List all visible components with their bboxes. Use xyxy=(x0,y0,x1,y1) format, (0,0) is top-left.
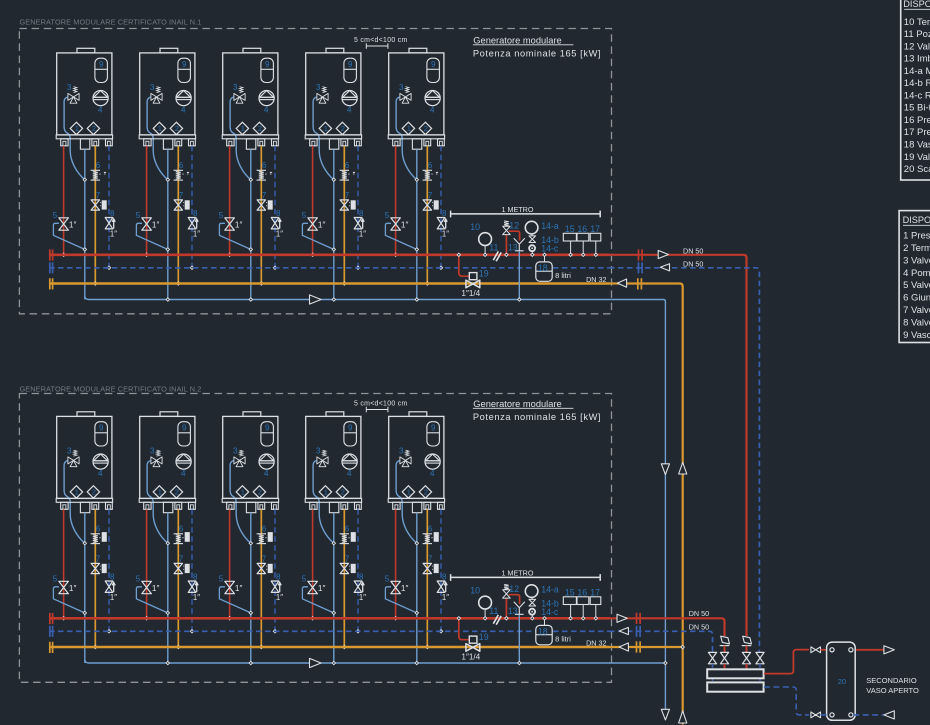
secondary return pipe xyxy=(764,687,809,715)
gen2 drain pipe xyxy=(609,662,665,664)
svg-text:DN 50: DN 50 xyxy=(689,622,709,631)
svg-text:20 Scambiatore di calore: 20 Scambiatore di calore xyxy=(904,164,930,175)
svg-text:DN 50: DN 50 xyxy=(683,259,703,268)
svg-text:14-b Rubinetto manometro: 14-b Rubinetto manometro xyxy=(904,78,930,89)
secondary return inlet xyxy=(853,714,884,716)
svg-text:15 Bi-termostato di blocco: 15 Bi-termostato di blocco xyxy=(904,103,930,114)
secondary supply pipe xyxy=(764,650,809,674)
svg-text:16 Pressostato di blocco: 16 Pressostato di blocco xyxy=(904,115,930,126)
svg-text:DISPOSITIVI DI SICUREZZA: DISPOSITIVI DI SICUREZZA xyxy=(903,0,930,9)
svg-text:8 Valvola di ritegno: 8 Valvola di ritegno xyxy=(903,317,930,328)
gen2 return flow arrow xyxy=(619,627,628,634)
isolating valve (gen2 supply) xyxy=(720,652,728,663)
gen1 gas pipe xyxy=(609,284,683,725)
gen2 gas flow arrow xyxy=(619,643,628,651)
gen1 return flange xyxy=(639,262,643,273)
gen1 supply flange xyxy=(639,249,643,260)
gen2 return pipe DN50 xyxy=(609,631,713,652)
secondary return valve xyxy=(811,712,821,718)
svg-text:DN 50: DN 50 xyxy=(689,609,709,618)
svg-text:14-a Manometro radiale: 14-a Manometro radiale xyxy=(904,66,930,77)
svg-text:12 Valvola di scarico term.: 12 Valvola di scarico term. xyxy=(904,41,930,52)
heat exchanger 20 xyxy=(827,642,856,720)
gen2 gas pipe xyxy=(609,646,683,648)
primary supply header xyxy=(707,669,763,678)
secondary supply outlet xyxy=(853,649,884,651)
section 1 dashed boundary xyxy=(19,29,611,314)
section 2 dashed boundary xyxy=(19,394,611,683)
gen1 gas flange xyxy=(638,278,642,289)
secondary supply valve xyxy=(811,647,821,653)
check valve (gen1 supply) xyxy=(742,645,752,647)
svg-text:19 Valvola intercettazione: 19 Valvola intercettazione xyxy=(904,152,930,163)
drain riser flow arrows xyxy=(661,464,669,475)
svg-text:7 Valvola gas: 7 Valvola gas xyxy=(903,305,930,316)
svg-text:20: 20 xyxy=(838,677,846,686)
generator section 1 xyxy=(49,35,610,304)
svg-text:VASO APERTO: VASO APERTO xyxy=(866,686,919,695)
section 2 joint actuator boxes xyxy=(102,532,107,542)
check valve (gen2 supply) xyxy=(720,645,730,647)
svg-text:11 Pozzetto di controllo: 11 Pozzetto di controllo xyxy=(904,29,930,40)
svg-text:SECONDARIO: SECONDARIO xyxy=(866,676,917,685)
gas riser flow arrows xyxy=(679,463,687,475)
gen1 drain pipe xyxy=(609,300,665,711)
isolating valve (gen1 return) xyxy=(756,652,764,663)
gen1 supply pipe DN50 xyxy=(609,255,747,636)
gen1 gas flow arrow xyxy=(617,279,626,287)
gen1 supply flow arrow xyxy=(658,250,668,258)
legend table 1 xyxy=(901,0,930,180)
svg-text:1 Pressostato di sicurezza: 1 Pressostato di sicurezza xyxy=(903,231,930,242)
svg-text:17 Pressostato di minima: 17 Pressostato di minima xyxy=(904,127,930,138)
gen2 supply flange xyxy=(637,613,641,624)
svg-text:18 Vaso espansione chiuso: 18 Vaso espansione chiuso xyxy=(904,140,930,151)
isolating valve (gen1 supply) xyxy=(742,652,750,663)
gen2 return flange xyxy=(637,626,641,637)
svg-text:4 Pompa anticondensa: 4 Pompa anticondensa xyxy=(903,268,930,279)
generator section 2 xyxy=(49,399,610,668)
svg-text:13 Imbuto di scarico: 13 Imbuto di scarico xyxy=(904,54,930,65)
svg-text:9 Vaso espansione: 9 Vaso espansione xyxy=(903,330,930,341)
svg-text:14-c Ricciolo ammortizzatore: 14-c Ricciolo ammortizzatore xyxy=(904,90,930,101)
gen2 supply pipe DN50 xyxy=(609,618,725,636)
svg-text:DISPOSITIVI INAIL: DISPOSITIVI INAIL xyxy=(903,215,930,225)
svg-text:GENERATORE MODULARE CERTIFICAT: GENERATORE MODULARE CERTIFICATO INAIL N.… xyxy=(20,17,202,26)
gen1 return flow arrow xyxy=(660,264,669,271)
isolating valve (gen2 return) xyxy=(708,652,716,663)
primary return header xyxy=(707,682,763,691)
gen2 gas flange xyxy=(637,641,641,652)
gen1 return pipe DN50 xyxy=(609,268,759,653)
svg-text:2 Termostato di regolazione: 2 Termostato di regolazione xyxy=(903,243,930,254)
svg-text:5 Valvola di intercettazione: 5 Valvola di intercettazione xyxy=(903,280,930,291)
legend table 2 xyxy=(899,211,930,343)
svg-text:3 Valvola a tre vie: 3 Valvola a tre vie xyxy=(903,255,930,266)
svg-text:10 Termometro di regolazione: 10 Termometro di regolazione xyxy=(904,17,930,28)
gen2 supply flow arrow xyxy=(617,614,627,622)
svg-text:6 Giunto antivibrante: 6 Giunto antivibrante xyxy=(903,293,930,304)
svg-text:DN 50: DN 50 xyxy=(683,246,703,255)
svg-text:GENERATORE MODULARE CERTIFICAT: GENERATORE MODULARE CERTIFICATO INAIL N.… xyxy=(20,384,202,393)
